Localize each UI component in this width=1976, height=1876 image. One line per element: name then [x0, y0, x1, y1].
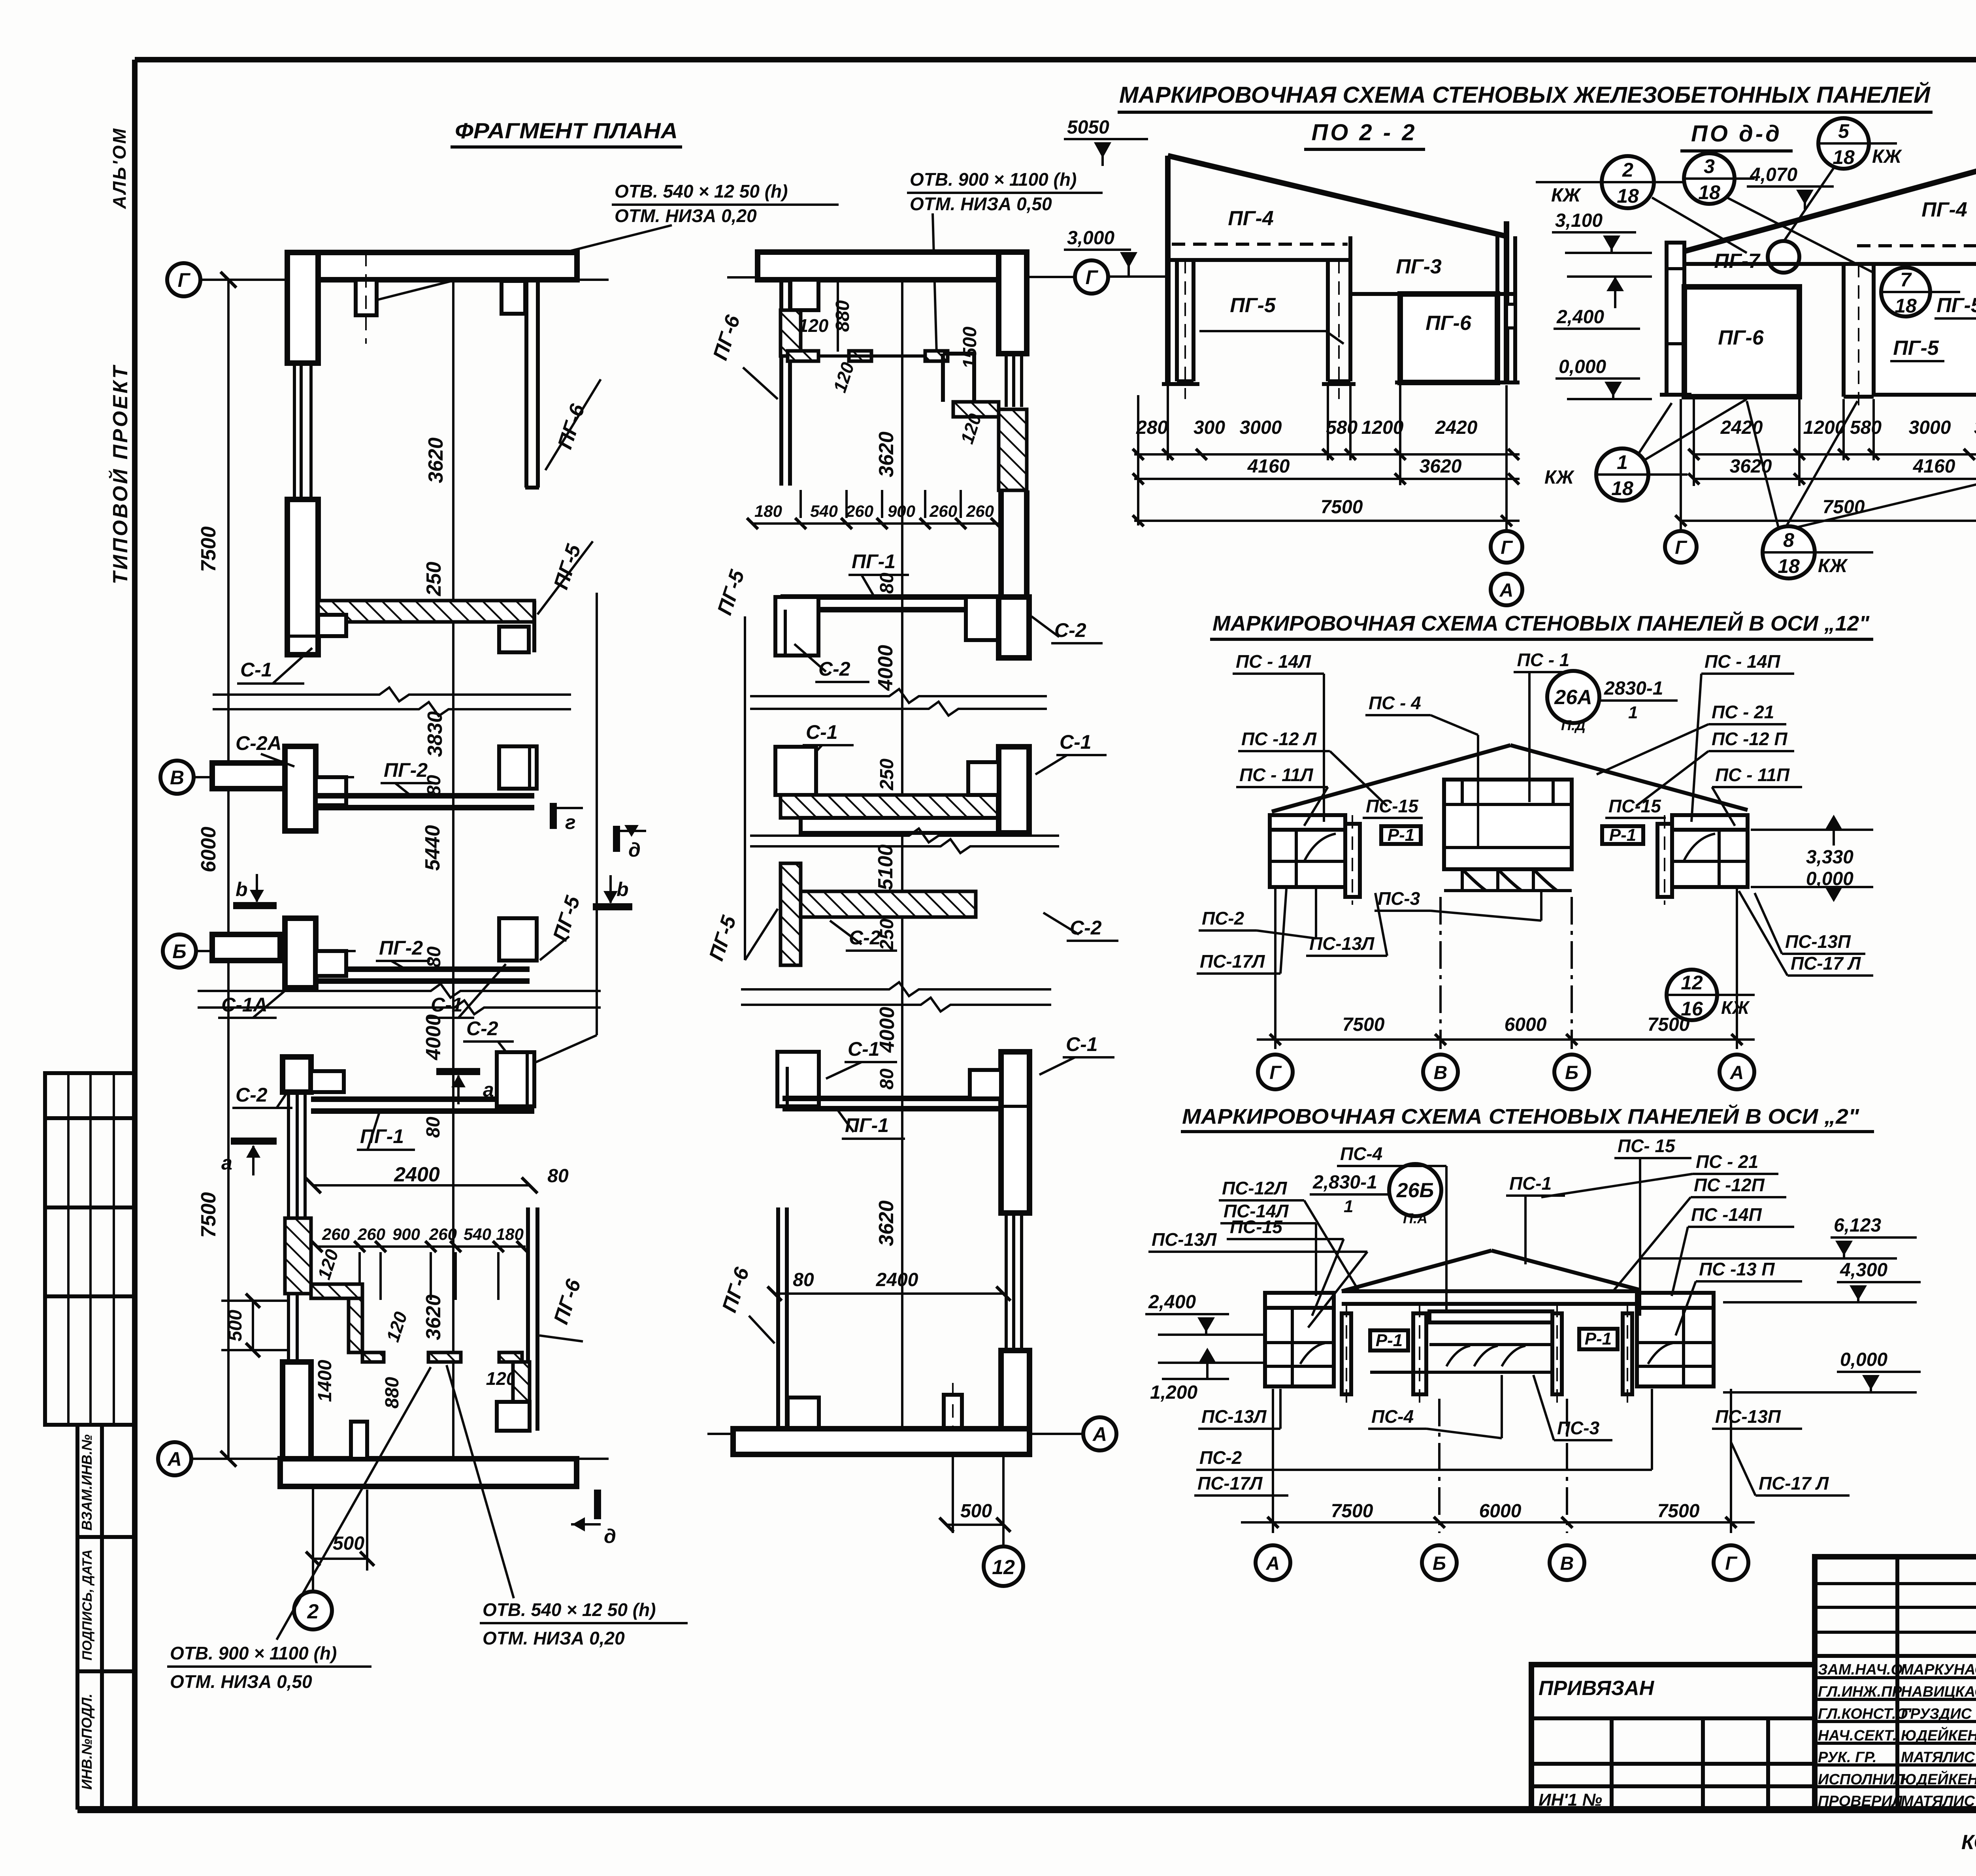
svg-text:5100: 5100: [874, 844, 897, 890]
lower hatched band: [801, 891, 976, 917]
svg-text:26Б: 26Б: [1396, 1179, 1434, 1202]
white band below: [801, 818, 999, 833]
leader up: [277, 1367, 431, 1640]
svg-text:С-2: С-2: [1070, 917, 1102, 939]
svg-text:3620: 3620: [424, 437, 447, 483]
svg-text:0,000: 0,000: [1840, 1349, 1887, 1370]
pier under hatch left: [318, 615, 346, 636]
Р-1 box left: [1381, 826, 1421, 844]
svg-text:ПС -14П: ПС -14П: [1691, 1204, 1762, 1225]
svg-text:26А: 26А: [1554, 686, 1592, 709]
hatched band: [781, 795, 999, 818]
svg-text:a: a: [221, 1152, 232, 1174]
pier at ПГ-6 top: [502, 281, 525, 314]
tee right of Б pier: [316, 951, 346, 976]
svg-text:4160: 4160: [1913, 456, 1955, 477]
svg-text:7: 7: [1900, 269, 1912, 291]
break lines: [750, 689, 1047, 703]
hatched stub right: [499, 1352, 522, 1362]
svg-text:Р-1: Р-1: [1609, 825, 1636, 845]
svg-text:7500: 7500: [197, 1192, 220, 1238]
svg-text:500: 500: [333, 1533, 364, 1554]
svg-text:ПС -12 П: ПС -12 П: [1712, 729, 1787, 749]
svg-text:г: г: [565, 811, 576, 833]
svg-text:Г: Г: [178, 269, 191, 291]
bottom arch posts: [1462, 869, 1557, 891]
svg-text:ПС - 11Л: ПС - 11Л: [1239, 765, 1314, 785]
svg-text:ПС-1: ПС-1: [1509, 1173, 1552, 1194]
svg-text:НАВИЦКАС: НАВИЦКАС: [1901, 1684, 1976, 1700]
leader fan from 8/18: [1747, 401, 1778, 527]
svg-text:ПС - 4: ПС - 4: [1369, 693, 1421, 713]
svg-text:ПГ-5: ПГ-5: [1230, 294, 1276, 317]
panel ПГ-5: [1874, 264, 1976, 395]
svg-text:ПС-15: ПС-15: [1366, 796, 1419, 816]
svg-text:260: 260: [845, 502, 873, 520]
svg-text:МАРКИРОВОЧНАЯ СХЕМА СТЕНОВЫХ: МАРКИРОВОЧНАЯ СХЕМА СТЕНОВЫХ ПАНЕЛЕЙ В О…: [1182, 1104, 1859, 1128]
svg-text:80: 80: [424, 946, 445, 968]
roof slope д-д: [1684, 156, 1976, 251]
svg-text:8: 8: [1783, 529, 1794, 551]
svg-text:ПГ-4: ПГ-4: [1228, 207, 1274, 230]
wall stub at top: [356, 280, 377, 315]
svg-text:ОТВ. 540 × 12 50 (h): ОТВ. 540 × 12 50 (h): [615, 181, 788, 202]
pier at Б: [285, 918, 316, 988]
right block Г: [1637, 1293, 1714, 1386]
svg-text:2,400: 2,400: [1148, 1292, 1196, 1313]
svg-text:3000: 3000: [1909, 417, 1951, 438]
center dim line col2: [901, 277, 903, 1434]
upper pier of lower wall: [283, 1057, 311, 1092]
svg-text:ПГ-7: ПГ-7: [1714, 250, 1761, 273]
svg-text:6000: 6000: [1479, 1501, 1522, 1522]
svg-text:ПС - 21: ПС - 21: [1696, 1151, 1758, 1172]
section mark д arrow: [613, 826, 620, 852]
axis line from shared circle Г: [1109, 275, 1168, 278]
svg-text:2,400: 2,400: [1556, 307, 1604, 328]
middle column: [1842, 264, 1846, 397]
svg-text:д: д: [628, 839, 641, 861]
left small revision table: [45, 1073, 134, 1425]
pier right end В: [499, 746, 537, 789]
svg-text:НАЧ.СЕКТ.: НАЧ.СЕКТ.: [1818, 1727, 1897, 1744]
svg-text:ПС-13Л: ПС-13Л: [1309, 933, 1375, 954]
svg-text:3,100: 3,100: [1555, 210, 1603, 231]
svg-text:МАРКУНАС: МАРКУНАС: [1901, 1661, 1976, 1678]
svg-text:ПС - 14Л: ПС - 14Л: [1236, 651, 1311, 672]
svg-text:ПС -13 П: ПС -13 П: [1699, 1259, 1775, 1279]
left block А: [1265, 1293, 1334, 1386]
svg-text:ТИПОВОЙ ПРОЕКТ: ТИПОВОЙ ПРОЕКТ: [108, 364, 132, 584]
svg-text:ПС-3: ПС-3: [1557, 1418, 1600, 1438]
svg-text:300: 300: [1194, 417, 1225, 438]
svg-text:ПГ-1: ПГ-1: [852, 550, 896, 573]
level 0,000 right: [1751, 886, 1873, 888]
svg-text:ПГ-5: ПГ-5: [1893, 337, 1939, 360]
window strip in left wall: [293, 363, 296, 499]
svg-text:ПС-4: ПС-4: [1371, 1406, 1414, 1427]
svg-text:КЖ: КЖ: [1872, 146, 1902, 167]
svg-text:ПС-17 Л: ПС-17 Л: [1759, 1473, 1829, 1494]
svg-text:С-1: С-1: [240, 659, 272, 681]
svg-text:260: 260: [966, 502, 994, 520]
svg-text:7500: 7500: [1648, 1014, 1690, 1035]
svg-text:260: 260: [357, 1225, 385, 1243]
right columns: [1552, 1313, 1562, 1394]
svg-text:6000: 6000: [1505, 1014, 1547, 1035]
svg-text:А: А: [1092, 1423, 1107, 1445]
pier right C (С-2): [497, 1052, 534, 1106]
right wall window strip: [1005, 354, 1008, 407]
svg-text:2400: 2400: [876, 1270, 918, 1290]
svg-text:3620: 3620: [875, 431, 898, 477]
svg-text:4000: 4000: [874, 645, 897, 691]
svg-text:12: 12: [992, 1556, 1015, 1579]
svg-text:ПРОВЕРИЛ: ПРОВЕРИЛ: [1818, 1793, 1903, 1810]
svg-text:С-1: С-1: [806, 721, 838, 743]
Р-1 box right: [1602, 826, 1643, 844]
svg-text:ГЛ.КОНСТ.О': ГЛ.КОНСТ.О': [1818, 1706, 1912, 1722]
left column: [1667, 243, 1684, 395]
projection lines from dim row: [358, 1252, 361, 1300]
svg-text:ОТМ. НИЗА 0,20: ОТМ. НИЗА 0,20: [615, 205, 757, 226]
svg-text:ПГ-2: ПГ-2: [379, 937, 423, 959]
svg-text:ПС -12П: ПС -12П: [1694, 1175, 1765, 1195]
projection verticals: [1272, 1389, 1274, 1533]
projection verticals to dim line: [1274, 889, 1276, 1049]
roof slope: [1168, 156, 1507, 236]
svg-text:ПГ-6: ПГ-6: [1425, 312, 1472, 335]
wall ПГ-6 top left vertical: [779, 280, 783, 486]
svg-text:ПО д-д: ПО д-д: [1691, 121, 1782, 147]
pier right of ПГ-6 top: [790, 280, 818, 310]
svg-text:В: В: [1560, 1553, 1574, 1574]
wall band ПГ-1 lower: [782, 1096, 1003, 1101]
right eave block: [1672, 815, 1748, 887]
svg-text:ПС - 11П: ПС - 11П: [1715, 765, 1790, 785]
pier at ПГ-6 bottom: [788, 1398, 819, 1429]
bottom wall band col2: [733, 1429, 1029, 1454]
left columns: [1342, 1313, 1351, 1394]
svg-text:Г: Г: [1086, 266, 1099, 288]
svg-text:А: А: [1499, 580, 1514, 601]
svg-text:ПС-17 Л: ПС-17 Л: [1791, 953, 1861, 974]
hatched step bottom: [362, 1352, 384, 1362]
svg-text:МАРКИРОВОЧНАЯ СХЕМА СТЕНОВЫХ: МАРКИРОВОЧНАЯ СХЕМА СТЕНОВЫХ ЖЕЛЕЗОБЕТОН…: [1119, 82, 1931, 108]
svg-text:ИСПОЛНИЛ: ИСПОЛНИЛ: [1818, 1771, 1904, 1788]
axis circle Г: [167, 263, 200, 296]
svg-text:5440: 5440: [421, 825, 444, 871]
right tee: [970, 1070, 1001, 1098]
svg-text:80: 80: [877, 1068, 897, 1090]
svg-text:С-2: С-2: [236, 1084, 268, 1106]
svg-text:ГРУЗДИС: ГРУЗДИС: [1901, 1706, 1972, 1722]
svg-text:ПГ-5: ПГ-5: [1936, 294, 1976, 317]
axis circle Г bottom: [1491, 531, 1522, 563]
eaves line: [1684, 262, 1844, 266]
svg-text:ПОДПИСЬ, ДАТА: ПОДПИСЬ, ДАТА: [80, 1549, 95, 1660]
left inner column: [1345, 824, 1360, 897]
wall stub left of Б: [212, 934, 280, 961]
marker 8/18 КЖ bottom: [1763, 526, 1815, 578]
svg-text:КЖ: КЖ: [1721, 997, 1750, 1018]
left stamp strip: [77, 1073, 134, 1810]
svg-text:880: 880: [832, 300, 853, 332]
svg-text:ПС-13Л: ПС-13Л: [1152, 1229, 1217, 1250]
svg-text:ОТВ. 900 × 1100 (h): ОТВ. 900 × 1100 (h): [170, 1643, 337, 1663]
right wall window strip: [1005, 1213, 1008, 1350]
svg-text:ОТВ. 900 × 1100 (h): ОТВ. 900 × 1100 (h): [910, 169, 1077, 190]
central slab: [1429, 1311, 1552, 1322]
svg-text:7500: 7500: [1823, 497, 1865, 518]
svg-text:ПС-13Л: ПС-13Л: [1201, 1406, 1267, 1427]
svg-text:ПС-2: ПС-2: [1202, 908, 1244, 929]
right big pier: [1001, 1052, 1029, 1213]
left eave block: [1270, 815, 1345, 887]
svg-text:РУК. ГР.: РУК. ГР.: [1818, 1749, 1877, 1766]
svg-text:b: b: [236, 878, 248, 900]
svg-text:18: 18: [1895, 295, 1917, 317]
dim line vertical 7500/6000/7500: [227, 280, 230, 1459]
leaders from markers: [1652, 198, 1747, 253]
svg-text:3: 3: [1704, 155, 1715, 177]
svg-text:ЮДЕЙКЕНЕ: ЮДЕЙКЕНЕ: [1901, 1726, 1976, 1744]
right tee: [966, 597, 999, 640]
axis circle Б: [163, 934, 196, 968]
svg-text:Р-1: Р-1: [1376, 1331, 1403, 1350]
svg-text:18: 18: [1617, 185, 1639, 207]
svg-text:Б: Б: [172, 940, 186, 962]
left T pier: [775, 597, 818, 655]
svg-text:Б: Б: [1433, 1553, 1446, 1574]
svg-text:КЖ: КЖ: [1818, 556, 1848, 576]
svg-text:ИН'1 №: ИН'1 №: [1539, 1790, 1602, 1810]
svg-text:ПС - 1: ПС - 1: [1517, 650, 1570, 670]
svg-text:С-1: С-1: [1066, 1033, 1098, 1055]
signature rows text: [1818, 1661, 1976, 1810]
break lines 2: [750, 829, 1059, 842]
svg-text:ПС-4: ПС-4: [1340, 1143, 1382, 1164]
opening top line: [1168, 258, 1350, 262]
svg-text:ЮДЕЙКЕНЕ: ЮДЕЙКЕНЕ: [1901, 1770, 1976, 1788]
axis circle В: [160, 761, 194, 794]
ground ticks: [1162, 382, 1199, 386]
svg-text:3830: 3830: [424, 711, 447, 757]
level 1,200 left: [1158, 1362, 1265, 1364]
svg-text:4000: 4000: [422, 1014, 445, 1060]
svg-text:ПГ-2: ПГ-2: [384, 759, 428, 781]
svg-text:12: 12: [1681, 972, 1703, 994]
svg-text:5: 5: [1838, 120, 1850, 142]
svg-text:С-2: С-2: [466, 1017, 498, 1040]
svg-text:д: д: [604, 1525, 616, 1547]
svg-text:ПС - 21: ПС - 21: [1712, 702, 1774, 722]
svg-text:В: В: [1434, 1062, 1448, 1083]
svg-text:4,300: 4,300: [1840, 1260, 1887, 1281]
title block signature table: [1815, 1557, 1976, 1810]
svg-text:0,000: 0,000: [1559, 356, 1606, 377]
svg-text:a: a: [483, 1079, 494, 1101]
svg-text:П.А: П.А: [1403, 1210, 1427, 1226]
wall stub left of В: [212, 763, 285, 789]
svg-text:3620: 3620: [1420, 456, 1462, 477]
left T pier: [777, 1052, 819, 1106]
section mark д bottom: [594, 1490, 601, 1519]
marker 26Б: [1389, 1164, 1441, 1216]
left ПГ-6 wall lower: [776, 1207, 780, 1429]
svg-text:ПС-17Л: ПС-17Л: [1200, 951, 1265, 972]
svg-text:2420: 2420: [1435, 417, 1478, 438]
svg-text:580: 580: [1850, 417, 1882, 438]
projection verticals: [1137, 395, 1139, 526]
svg-text:2: 2: [307, 1600, 319, 1623]
svg-text:Г: Г: [1725, 1553, 1738, 1574]
svg-text:А: А: [167, 1448, 182, 1470]
svg-text:С-1: С-1: [1060, 731, 1092, 753]
right wall continuation: [998, 490, 1004, 597]
wall band at Б: [316, 966, 530, 972]
svg-text:540: 540: [810, 502, 838, 520]
svg-text:ГЛ.ИНЖ.ПР: ГЛ.ИНЖ.ПР: [1818, 1684, 1902, 1700]
dashed line under slope: [1857, 244, 1976, 247]
small blocks on right column: [1507, 304, 1515, 328]
svg-text:80: 80: [793, 1270, 814, 1290]
marker 3/18: [1684, 153, 1735, 204]
axis circle А: [158, 1442, 191, 1475]
Р-1 box left: [1370, 1330, 1408, 1350]
title block: [1531, 1557, 1976, 1861]
right big pier: [999, 597, 1029, 658]
svg-text:КЖ: КЖ: [1544, 467, 1575, 488]
svg-text:Г: Г: [1501, 537, 1513, 558]
bottom wall band: [280, 1459, 577, 1486]
svg-text:1400: 1400: [315, 1360, 336, 1402]
axis circle Г col2: [1075, 260, 1108, 294]
frame bottom border: [77, 1806, 1976, 1813]
svg-text:ПС-3: ПС-3: [1378, 888, 1420, 909]
plan column 2 lower part: [707, 982, 1116, 1586]
svg-text:5050: 5050: [1067, 117, 1109, 138]
svg-text:260: 260: [322, 1225, 350, 1243]
axis line Г: [577, 279, 609, 281]
lower window strip: [287, 1294, 290, 1362]
opening line: [818, 354, 925, 358]
right column of opening: [1326, 260, 1330, 381]
axis circles А Б В Г: [1256, 1545, 1290, 1580]
svg-text:900: 900: [888, 502, 915, 520]
svg-text:1: 1: [1628, 703, 1638, 722]
break lines: [213, 687, 571, 701]
svg-text:Б: Б: [1565, 1062, 1578, 1083]
svg-text:ПО 2 - 2: ПО 2 - 2: [1311, 120, 1417, 145]
svg-text:ФРАГМЕНТ ПЛАНА: ФРАГМЕНТ ПЛАНА: [455, 118, 678, 143]
frame left border: [132, 60, 138, 1810]
svg-text:2: 2: [1622, 159, 1633, 181]
central stack: [1444, 780, 1572, 869]
svg-text:ПС - 14П: ПС - 14П: [1704, 651, 1780, 672]
left column: [1175, 260, 1179, 381]
hatched pier left: [285, 1218, 311, 1294]
svg-text:4,070: 4,070: [1750, 164, 1797, 185]
hatched step horizontal: [311, 1284, 362, 1298]
dashed top of opening: [1172, 243, 1348, 246]
break lines: [741, 982, 1051, 996]
svg-text:ПРИВЯЗАН: ПРИВЯЗАН: [1539, 1677, 1655, 1700]
svg-text:ВЗАМ.ИНВ.№: ВЗАМ.ИНВ.№: [79, 1434, 95, 1530]
projection lines up: [799, 490, 802, 518]
svg-text:ПС-13П: ПС-13П: [1785, 931, 1851, 952]
svg-text:ПС-15: ПС-15: [1608, 796, 1661, 816]
break lines below Б: [198, 984, 601, 998]
svg-text:b: b: [617, 878, 629, 900]
left edge: [1165, 156, 1171, 384]
long leader from С-2 right: [534, 1035, 597, 1063]
marker 26А: [1547, 671, 1599, 723]
axis circle А bottom: [1491, 574, 1522, 605]
svg-text:7500: 7500: [1342, 1014, 1385, 1035]
stub right of pier: [311, 1071, 344, 1092]
stub above bottom band: [351, 1422, 367, 1459]
hatched stub middle: [428, 1352, 461, 1362]
small circle marker: [1768, 241, 1799, 273]
right inner column: [1657, 824, 1672, 897]
svg-text:260: 260: [429, 1225, 457, 1243]
svg-text:3000: 3000: [1240, 417, 1282, 438]
svg-text:80: 80: [877, 573, 897, 594]
svg-text:7500: 7500: [197, 526, 220, 572]
svg-text:ПС-14Л: ПС-14Л: [1224, 1201, 1289, 1221]
svg-text:С-1: С-1: [848, 1038, 880, 1060]
axis circle 2: [294, 1592, 332, 1629]
axis circles Г В Б А: [1258, 1055, 1293, 1089]
frame top border: [135, 57, 1976, 62]
wall ПГ-6 vertical: [524, 281, 528, 488]
svg-text:ПС-13П: ПС-13П: [1715, 1406, 1781, 1427]
hatched step band: [953, 402, 999, 417]
long leader from ПГ-5: [744, 616, 746, 960]
svg-text:18: 18: [1778, 555, 1800, 577]
marker 5/18 + КЖ: [1818, 118, 1869, 169]
svg-text:АЛЬ'ОМ: АЛЬ'ОМ: [109, 127, 130, 209]
roof gable: [1342, 1251, 1491, 1291]
section mark г: [550, 803, 557, 829]
svg-text:500: 500: [960, 1501, 992, 1522]
stub above bottom band: [944, 1395, 962, 1431]
lower hatched pier left: [781, 863, 801, 965]
svg-text:18: 18: [1833, 146, 1855, 168]
svg-text:4160: 4160: [1247, 456, 1290, 477]
window strip: [287, 1092, 290, 1218]
top wall band col2: [758, 252, 1027, 280]
svg-text:ПГ-4: ПГ-4: [1921, 198, 1967, 221]
axis circle Г: [1665, 531, 1697, 563]
svg-text:ПС-2: ПС-2: [1199, 1447, 1242, 1468]
hatched pier on ПГ-6: [513, 1362, 530, 1407]
C pier bottom right: [497, 1402, 530, 1431]
central top band: [1342, 1289, 1639, 1293]
left margin vertical texts: [108, 127, 132, 584]
wall band ПГ-2: [316, 793, 534, 799]
Р-1 box right: [1579, 1329, 1618, 1349]
right wall top pier: [999, 252, 1027, 354]
svg-text:МАРКИРОВОЧНАЯ СХЕМА СТЕНОВЫХ: МАРКИРОВОЧНАЯ СХЕМА СТЕНОВЫХ ПАНЕЛЕЙ В О…: [1212, 611, 1870, 635]
leader to opening: [375, 225, 672, 300]
svg-text:Р-1: Р-1: [1585, 1329, 1612, 1349]
svg-text:П.Д: П.Д: [1561, 717, 1586, 733]
hatched piece on left wall: [781, 310, 801, 356]
svg-text:18: 18: [1698, 181, 1720, 203]
tee right of pier: [316, 777, 346, 805]
